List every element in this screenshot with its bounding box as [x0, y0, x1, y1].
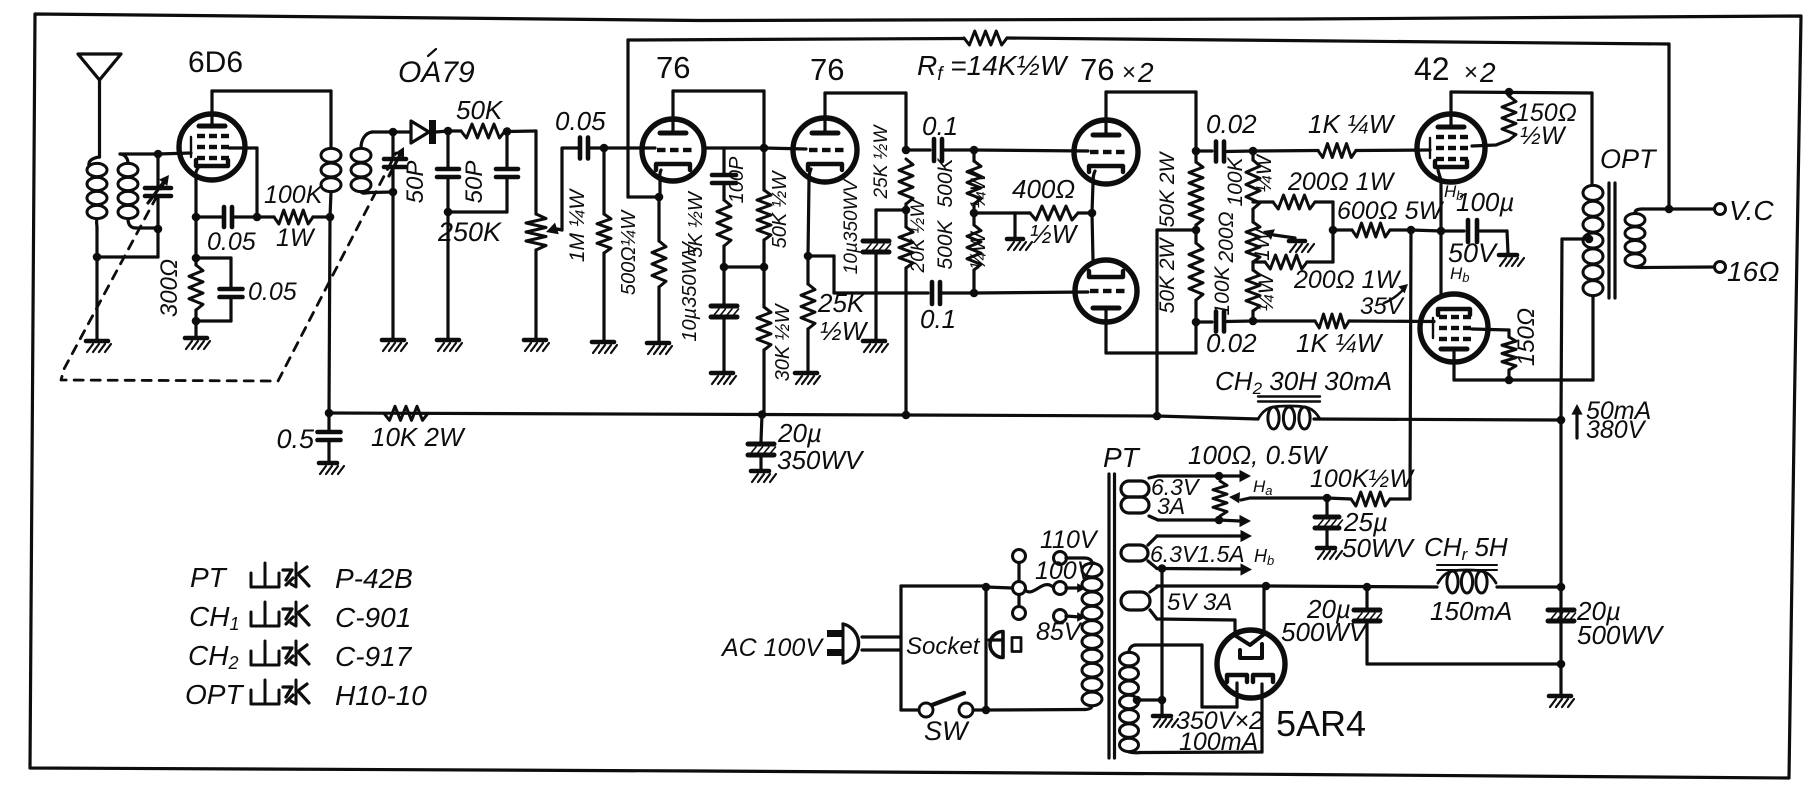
junction node tune top [154, 150, 163, 159]
ground [437, 338, 459, 343]
potentiometer 250K [526, 214, 546, 250]
wire 42 plate rail [1451, 92, 1592, 93]
svg-text:150mA: 150mA [1430, 596, 1512, 626]
resistor 50K 2W lower [1194, 230, 1197, 243]
junction node 380V [1557, 416, 1566, 425]
svg-text:50K: 50K [456, 95, 504, 125]
svg-text:×: × [1464, 59, 1478, 86]
arrow heater Hb1 [1230, 534, 1240, 537]
junction drv plate lower [1192, 318, 1201, 327]
ground [795, 371, 817, 376]
wire L2 top lead [120, 154, 128, 163]
svg-text:50K 2W: 50K 2W [1156, 236, 1179, 313]
svg-text:150Ω: 150Ω [1513, 308, 1540, 366]
wire grid line through [705, 146, 764, 149]
wire coil L1 bottom [95, 219, 99, 228]
arrow 250K wiper [546, 223, 559, 235]
IF transformer T1 primary [329, 91, 332, 142]
capacitor 0.1 upper [906, 148, 930, 151]
svg-text:600Ω 5W: 600Ω 5W [1337, 197, 1445, 225]
svg-text:380V: 380V [1586, 416, 1647, 444]
ground [524, 338, 546, 343]
ground hang 400ohm [1013, 213, 1016, 238]
wire rail2 [1266, 586, 1437, 587]
resistor 1M quarterW [602, 148, 605, 214]
wire B+ bus [329, 413, 1258, 419]
ground [1153, 714, 1171, 719]
wire 50P gnd [446, 212, 449, 338]
arrow 50mA [1575, 410, 1578, 438]
junction filter1 [1557, 583, 1566, 592]
junction bus left [325, 409, 334, 418]
svg-text:76: 76 [810, 52, 844, 87]
junction divider node [902, 206, 911, 215]
wire drv lower plate [1104, 308, 1107, 353]
capacitor 100u 50V [1466, 220, 1471, 242]
junction cathode1 node [655, 193, 664, 202]
resistor 150ohm lower [1502, 337, 1516, 370]
svg-text:0.5: 0.5 [276, 424, 315, 454]
wire splitter link [808, 254, 834, 257]
capacitor 0.05 cathode bypass [196, 256, 231, 259]
svg-text:AC 100V: AC 100V [720, 634, 824, 662]
resistor 20K halfW [904, 210, 907, 227]
wire drv upper cathode [1093, 171, 1095, 183]
svg-text:0.05: 0.05 [248, 278, 297, 306]
junction plate2 node [902, 146, 911, 155]
wire B feed down [1157, 228, 1196, 231]
resistor 100K halfW [1327, 498, 1351, 499]
arrow 35V [1384, 288, 1405, 303]
diode OA79 [393, 130, 411, 133]
svg-text:¼W: ¼W [1255, 272, 1278, 312]
svg-text:16Ω: 16Ω [1727, 256, 1779, 287]
junction plate1 node [760, 144, 769, 153]
junction det top [389, 128, 398, 137]
ground [1317, 546, 1335, 551]
junction bias bottom [1249, 317, 1258, 326]
svg-text:10µ350WV: 10µ350WV [841, 177, 862, 274]
resistor 200ohm 1W lower [1253, 260, 1265, 263]
transformer PT core [1107, 474, 1110, 758]
svg-text:50K 2W: 50K 2W [1156, 150, 1179, 227]
wire 42 upper cathode [1438, 170, 1441, 182]
antenna [78, 54, 121, 80]
svg-text:C-917: C-917 [335, 641, 413, 672]
svg-text:400Ω: 400Ω [1012, 174, 1075, 204]
svg-text:½W: ½W [1030, 219, 1079, 249]
svg-text:500Ω¼W: 500Ω¼W [618, 209, 640, 295]
capacitor 50P second [505, 132, 508, 168]
capacitor 100P [722, 148, 725, 173]
junction bus 20K [902, 411, 911, 420]
svg-text:2: 2 [1479, 57, 1496, 88]
tap 85V [1054, 610, 1067, 623]
wire OPT tap [1562, 237, 1589, 240]
resistor 100K quarterW upper [1251, 151, 1254, 160]
junction screen node [253, 213, 262, 222]
wire OPT sec top [1635, 209, 1642, 213]
wire 76b cathode [809, 169, 811, 181]
svg-text:76: 76 [1080, 52, 1114, 87]
svg-text:1W: 1W [276, 224, 316, 252]
ground [647, 341, 669, 346]
svg-text:¼W: ¼W [967, 230, 990, 270]
svg-text:3A: 3A [1157, 493, 1185, 519]
wire cap bottom link [1367, 662, 1561, 665]
svg-text:50P: 50P [402, 161, 429, 204]
resistor 50K [448, 129, 461, 132]
tube V7 42 lower [1420, 294, 1488, 362]
svg-text:350WV: 350WV [777, 445, 865, 475]
svg-text:200Ω 1W: 200Ω 1W [1293, 266, 1402, 294]
junction filter2 [1557, 660, 1566, 669]
resistor 300ohm [194, 258, 197, 265]
choke CH2 30H [1258, 406, 1320, 419]
svg-text:5V 3A: 5V 3A [1167, 589, 1232, 616]
wire 42 lower cathode [1439, 231, 1442, 294]
ground [863, 339, 885, 344]
wire gnd [1559, 664, 1562, 694]
junction cap left [1363, 583, 1372, 592]
svg-text:500K: 500K [934, 157, 957, 207]
wire IF sec bottom [361, 192, 370, 193]
ground [1549, 694, 1571, 699]
svg-text:2: 2 [1137, 57, 1154, 88]
arrow heater Ha1 [1219, 474, 1240, 477]
svg-text:76: 76 [656, 50, 690, 85]
wire 6.3V1.5A top [1148, 536, 1157, 545]
junction B feed [1192, 226, 1201, 235]
capacitor 0.02 lower [1196, 320, 1212, 323]
junction bias top [1249, 147, 1258, 156]
wire 5V top [1150, 587, 1157, 592]
capacitor 0.05 coupling [563, 146, 578, 149]
transformer OPT core [1607, 183, 1610, 298]
svg-text:50P: 50P [461, 161, 488, 204]
resistor 500K upper [972, 150, 975, 161]
resistor 25K halfW cathode [806, 256, 809, 284]
wire 6.3V3A top [1149, 476, 1158, 478]
svg-text:Socket: Socket [906, 633, 981, 660]
dashed gang link [61, 153, 396, 381]
svg-text:P-42B: P-42B [335, 563, 413, 594]
junction screen rail [1505, 88, 1514, 97]
junction mid rail [760, 263, 769, 272]
resistor 150ohm halfW [1502, 96, 1516, 140]
svg-text:½W: ½W [1520, 122, 1567, 150]
resistor 50K halfW [757, 190, 771, 240]
capacitor 20u 500WV right [1548, 608, 1574, 613]
5AR4 filament [1236, 635, 1263, 645]
svg-text:100K: 100K [1211, 265, 1234, 315]
wire det gnd [391, 192, 394, 338]
IF transformer T1 secondary [351, 148, 371, 162]
tube V8 5AR4 rectifier [1217, 630, 1285, 698]
junction grid4 node [970, 289, 979, 298]
selector wiper wire [1025, 585, 1053, 592]
resistor 400ohm halfW [974, 211, 1030, 214]
svg-text:30K ½W: 30K ½W [772, 303, 794, 382]
resistor 30K halfW [762, 267, 765, 307]
capacitor 20u 350WV [761, 415, 762, 442]
junction screen lower [1505, 376, 1514, 385]
junction grid1 node [600, 144, 609, 153]
resistor 1K quarterW upper [1253, 149, 1318, 153]
ground [592, 340, 614, 345]
svg-text:42: 42 [1414, 51, 1450, 87]
arrow 100ohm wiper [1229, 492, 1240, 503]
wire 76 plate top [671, 91, 674, 133]
arrow heater Hb2 [1230, 567, 1240, 570]
potentiometer 200ohm hum [1246, 222, 1260, 262]
wire plug lower [862, 648, 901, 651]
capacitor 25u 50WV [1325, 498, 1328, 515]
svg-text:100K: 100K [264, 181, 324, 209]
svg-text:100P: 100P [726, 156, 748, 203]
svg-text:H10-10: H10-10 [335, 680, 427, 711]
wire B+ down [1559, 420, 1562, 587]
terminal 16ohm [1715, 262, 1726, 273]
ground [382, 338, 404, 343]
terminal V.C [1715, 204, 1726, 215]
resistor 10K 2W [384, 406, 428, 420]
junction heater gnd [1158, 564, 1167, 573]
resistor 25K halfW plate [899, 159, 913, 204]
wire 6D6 plate to top [210, 91, 213, 126]
svg-text:20K ½W: 20K ½W [908, 198, 929, 274]
svg-text:500WV: 500WV [1281, 617, 1369, 647]
wire 76 cathode [660, 170, 661, 182]
svg-text:500WV: 500WV [1577, 620, 1665, 650]
ground [1499, 253, 1517, 258]
svg-text:0.1: 0.1 [920, 304, 956, 334]
wire HV top [1129, 645, 1136, 652]
tube V4 76 driver upper [1074, 120, 1138, 184]
wire 6D6 screen right [229, 146, 257, 149]
wire heater gnd [1160, 569, 1163, 701]
ground [185, 336, 207, 341]
junction cathode 42 node [1407, 226, 1416, 235]
wire antenna to coil [89, 157, 100, 166]
5AR4 plate right [1253, 675, 1273, 682]
antenna coil L2 secondary [118, 163, 138, 176]
switch SW [919, 703, 933, 717]
wire plug upper [862, 635, 901, 638]
wire feedback left leg [626, 40, 629, 197]
wire box to selector [986, 587, 1012, 588]
wire cathode bus [1411, 230, 1441, 231]
arrow heater Ha2 [1219, 520, 1240, 521]
5AR4 cathode bar [1240, 644, 1262, 658]
svg-text:100µ: 100µ [1456, 187, 1514, 217]
svg-text:5AR4: 5AR4 [1276, 703, 1366, 744]
wire to ground [95, 257, 98, 339]
winding HV 350Vx2 [1120, 652, 1139, 665]
wire plate rail to IF [212, 89, 331, 92]
wire 6.3V1.5A bottom [1148, 561, 1157, 569]
capacitor 10u 350WV second [876, 208, 906, 211]
junction node tune bottom [154, 225, 163, 234]
svg-text:¼W: ¼W [1253, 153, 1276, 193]
tube V1 6D6 [179, 114, 245, 180]
svg-text:OPT: OPT [185, 679, 244, 710]
plug AC [842, 624, 845, 663]
junction 5K bottom [720, 263, 729, 272]
svg-text:1K ¼W: 1K ¼W [1296, 328, 1384, 358]
svg-text:¼W: ¼W [967, 169, 990, 209]
svg-text:6.3V1.5A: 6.3V1.5A [1150, 541, 1245, 567]
svg-text:0.02: 0.02 [1206, 328, 1257, 358]
svg-text:110V: 110V [1040, 526, 1099, 554]
wire CH2 to node [1314, 419, 1561, 420]
capacitor 50P first [446, 131, 449, 167]
svg-text:0.05: 0.05 [207, 228, 256, 256]
svg-text:300Ω: 300Ω [156, 259, 183, 317]
wire 42 lower plate [1452, 349, 1455, 380]
svg-text:50WV: 50WV [1342, 533, 1415, 563]
antenna coil L1 primary [87, 163, 107, 176]
svg-text:0.02: 0.02 [1206, 109, 1257, 139]
wire 76b plate top [823, 93, 826, 133]
svg-text:100mA: 100mA [1179, 728, 1258, 756]
variable capacitor VC1 tuning [156, 154, 159, 186]
svg-text:10µ350WV: 10µ350WV [679, 241, 701, 342]
svg-text:6D6: 6D6 [188, 46, 243, 79]
ground [751, 469, 769, 474]
junction box TR [982, 583, 991, 592]
svg-text:100V: 100V [1035, 557, 1096, 585]
wire to grid2 [764, 148, 806, 149]
svg-text:V.C: V.C [1729, 195, 1774, 226]
svg-text:100Ω, 0.5W: 100Ω, 0.5W [1188, 440, 1329, 470]
junction grid3 node [970, 146, 979, 155]
ground [711, 371, 733, 376]
junction fb node [1665, 205, 1674, 214]
wire filter v [1559, 587, 1562, 664]
capacitor 10u 350WV first [722, 267, 725, 304]
resistor 1K quarterW lower [1253, 319, 1315, 322]
transformer OPT secondary [1625, 214, 1645, 227]
resistor 500K lower [967, 225, 981, 270]
junction cathode2 node [804, 252, 813, 261]
resistor 600ohm 5W [1333, 228, 1352, 231]
transformer OPT primary [1583, 185, 1603, 200]
junction 300ohm top [192, 254, 201, 263]
tube V3 76 [793, 118, 857, 182]
svg-text:1M ¼W: 1M ¼W [566, 188, 589, 263]
wire 50K to pot [507, 129, 536, 133]
junction 600 left [1329, 226, 1338, 235]
junction cathode node [192, 213, 201, 222]
wire rail3 [1497, 585, 1561, 588]
svg-text:1K ¼W: 1K ¼W [1308, 109, 1396, 139]
svg-text:20µ: 20µ [777, 418, 822, 448]
svg-text:½W: ½W [820, 316, 869, 346]
wire L2 bottom lead [128, 219, 136, 228]
resistor 5K halfW [717, 200, 731, 246]
junction pot top [1215, 472, 1224, 481]
arrow hum wiper [1263, 229, 1275, 240]
capacitor 20u 500WV left [1365, 587, 1368, 608]
tube V2 76 [642, 119, 704, 181]
svg-text:25K ½W: 25K ½W [871, 124, 892, 200]
capacitor 0.5 [327, 413, 330, 430]
junction drv plate upper [1192, 147, 1201, 156]
wire cathode chain [194, 217, 197, 258]
selector rotary [1013, 582, 1026, 595]
tube V5 76 driver lower [1075, 260, 1137, 322]
wire ant bottom link [97, 255, 158, 258]
junction 25u node [1323, 494, 1332, 503]
svg-text:×: × [1122, 59, 1136, 86]
wire to grid lower drv [974, 292, 1088, 293]
svg-text:PT: PT [1103, 442, 1141, 473]
svg-text:85V: 85V [1036, 618, 1083, 646]
junction box BR [982, 706, 991, 715]
wire HV bottom [1129, 750, 1140, 754]
svg-text:OPT: OPT [1600, 144, 1658, 174]
resistor 200ohm 1W upper [1253, 200, 1273, 203]
junction node ant-gnd [93, 253, 102, 262]
underline [1258, 395, 1320, 397]
winding 6.3V 3A [1121, 481, 1149, 497]
wire screen down [255, 148, 258, 217]
svg-text:200Ω: 200Ω [1215, 211, 1238, 263]
wire drv upper plate [1104, 92, 1107, 135]
capacitor 0.1 lower [930, 282, 935, 304]
junction 400 right [1088, 209, 1097, 218]
wire IF primary to bus [329, 217, 330, 413]
svg-text:100K: 100K [1224, 156, 1247, 206]
junction 500K mid [970, 209, 979, 218]
accent OA79 [428, 49, 436, 56]
svg-text:C-901: C-901 [335, 602, 411, 633]
ground [319, 461, 337, 466]
junction bus drv [1153, 412, 1162, 421]
wire drv lower cathode [1092, 213, 1093, 260]
resistor 100K quarterW lower [1251, 262, 1254, 270]
junction det bottom [389, 188, 398, 197]
resistor 100K 1W [257, 215, 274, 218]
wire primary bottom [986, 708, 1085, 712]
junction 50P bottom [444, 208, 453, 217]
svg-text:500K: 500K [934, 219, 957, 269]
svg-text:OA79: OA79 [398, 56, 475, 89]
junction 300ohm bottom [192, 317, 201, 326]
wire 42 upper plate [1449, 92, 1452, 127]
wire grid 6D6 [158, 153, 191, 154]
jack chassis [989, 638, 1002, 641]
junction 42 cathodes [1437, 227, 1446, 236]
wire B+ rail [1157, 584, 1266, 587]
tap 110V [1054, 552, 1067, 565]
svg-text:35V: 35V [1360, 293, 1405, 320]
junction diode out [444, 127, 453, 136]
wire grid to 76 [604, 146, 655, 149]
svg-text:10K 2W: 10K 2W [371, 422, 466, 452]
5AR4 plate left [1227, 675, 1247, 682]
capacitor 0.05 cathode-screen [196, 215, 222, 218]
capacitor 0.02 upper [1196, 149, 1212, 152]
svg-text:CH2 30H 30mA: CH2 30H 30mA [1215, 366, 1392, 398]
arrow VC1 [148, 179, 166, 203]
socket box [901, 584, 986, 587]
winding 6.3V 1.5A [1121, 545, 1148, 561]
svg-text:PT: PT [190, 562, 228, 593]
winding 5V 3A [1121, 592, 1150, 610]
svg-text:200Ω 1W: 200Ω 1W [1287, 168, 1396, 196]
